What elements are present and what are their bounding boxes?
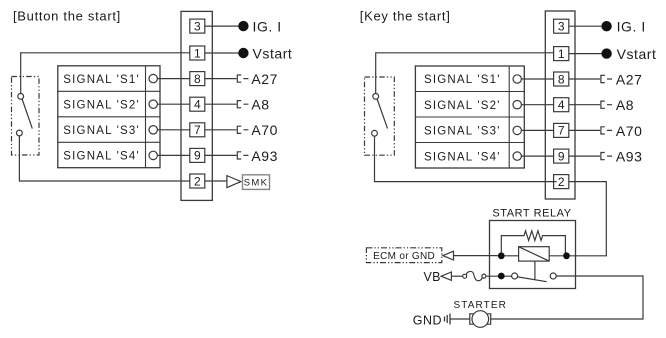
svg-text:SIGNAL 'S4': SIGNAL 'S4' — [63, 151, 140, 163]
svg-text:A8: A8 — [251, 97, 269, 113]
svg-text:IG. I: IG. I — [617, 19, 646, 35]
svg-text:1: 1 — [558, 47, 565, 61]
svg-text:7: 7 — [558, 124, 565, 138]
svg-text:A27: A27 — [251, 71, 278, 87]
svg-text:8: 8 — [194, 72, 201, 86]
svg-text:3: 3 — [194, 19, 201, 33]
svg-text:A93: A93 — [616, 149, 643, 165]
svg-text:SIGNAL 'S3': SIGNAL 'S3' — [63, 125, 140, 137]
svg-text:SIGNAL 'S1': SIGNAL 'S1' — [424, 74, 501, 86]
svg-text:A93: A93 — [251, 148, 278, 164]
svg-text:A27: A27 — [616, 71, 643, 87]
svg-text:SIGNAL 'S2': SIGNAL 'S2' — [63, 99, 140, 111]
svg-text:3: 3 — [558, 20, 565, 34]
svg-text:[Button the start]: [Button the start] — [13, 9, 121, 24]
svg-text:1: 1 — [194, 46, 201, 60]
svg-text:Vstart: Vstart — [253, 45, 293, 61]
svg-text:2: 2 — [558, 175, 565, 189]
svg-text:A8: A8 — [616, 97, 634, 113]
svg-text:SMK: SMK — [244, 177, 269, 188]
svg-text:SIGNAL 'S2': SIGNAL 'S2' — [424, 100, 501, 112]
svg-text:STARTER: STARTER — [453, 300, 506, 311]
svg-text:SIGNAL 'S3': SIGNAL 'S3' — [424, 126, 501, 138]
svg-text:A70: A70 — [251, 122, 278, 138]
svg-text:Vstart: Vstart — [617, 46, 657, 62]
svg-text:ECM or GND: ECM or GND — [373, 251, 435, 262]
svg-text:2: 2 — [194, 174, 201, 188]
svg-text:[Key the start]: [Key the start] — [360, 9, 451, 24]
svg-text:SIGNAL 'S4': SIGNAL 'S4' — [424, 151, 501, 163]
svg-text:START RELAY: START RELAY — [492, 207, 571, 219]
svg-text:7: 7 — [194, 123, 201, 137]
svg-text:VB: VB — [424, 270, 441, 284]
svg-text:IG. I: IG. I — [253, 19, 282, 35]
svg-text:GND: GND — [413, 313, 442, 327]
svg-text:8: 8 — [558, 72, 565, 86]
svg-text:A70: A70 — [616, 123, 643, 139]
svg-text:SIGNAL 'S1': SIGNAL 'S1' — [63, 74, 140, 86]
svg-text:9: 9 — [194, 149, 201, 163]
svg-text:9: 9 — [558, 149, 565, 163]
svg-text:4: 4 — [194, 98, 201, 112]
svg-text:4: 4 — [558, 98, 565, 112]
